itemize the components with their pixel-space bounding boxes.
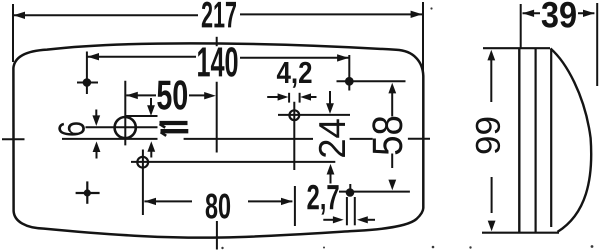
hole bottom-right dot bbox=[346, 188, 355, 197]
mounting hole top-left dot bbox=[83, 78, 92, 87]
dim 6 bottom arrow stem bbox=[96, 151, 98, 159]
dim 2,7 tick left bbox=[346, 197, 348, 225]
small circle left vertical line (80 extension) bbox=[142, 150, 144, 216]
dim 217 line right bbox=[240, 13, 422, 15]
dim 217 arrow left bbox=[13, 12, 25, 19]
mounting hole top-right dot bbox=[345, 77, 354, 86]
dim 99 top arrow bbox=[487, 50, 495, 61]
dim 140 arrow right bbox=[337, 54, 349, 61]
dim 140 line left bbox=[87, 56, 196, 58]
dim 11 top arrow bbox=[147, 105, 155, 116]
mounting hole bottom-left cross dot bbox=[84, 189, 91, 196]
side view lens curve bbox=[551, 49, 592, 232]
dim 2,7 arrow left bbox=[333, 216, 344, 223]
dim 39 label bbox=[542, 2, 576, 28]
dim 39 arrow right bbox=[583, 10, 595, 17]
dim 2,7 tick right bbox=[354, 197, 356, 225]
dim 99 label (rotated) bbox=[476, 118, 500, 154]
horizontal centerline segment b bbox=[184, 138, 313, 140]
dim 50 line right bbox=[189, 94, 205, 96]
dim 24 label (rotated) bbox=[319, 119, 345, 157]
front view body outline bbox=[13, 43, 423, 237]
dim 50 arrow left bbox=[126, 92, 138, 99]
dim 6 bottom arrow bbox=[93, 141, 101, 152]
mounting hole bottom-left cross vertical bbox=[86, 181, 88, 203]
mounting hole top-right cross vertical bbox=[348, 55, 350, 91]
horizontal centerline right tick bbox=[408, 138, 430, 140]
dim 217 arrow right bbox=[411, 11, 423, 18]
dim 24 top arrow stem bbox=[329, 91, 331, 104]
side view left edge bbox=[518, 48, 520, 233]
side view top edge bbox=[483, 47, 550, 49]
dim 80 line left bbox=[144, 200, 192, 202]
dim 80 line right bbox=[248, 200, 292, 202]
dim 58 bottom arrow bbox=[388, 180, 396, 191]
dim 50 arrow right bbox=[204, 92, 216, 99]
side view bottom edge bbox=[482, 232, 559, 234]
vertical centerline middle segment bbox=[216, 82, 218, 153]
dim 39 extension left bbox=[520, 4, 522, 48]
line y191 bottom right bbox=[339, 191, 410, 193]
mounting hole top-left cross vertical bbox=[86, 52, 88, 95]
dim 39 line left bbox=[523, 12, 541, 14]
dim 80 extension right bbox=[294, 186, 296, 226]
dim 39 arrow left bbox=[523, 10, 535, 17]
small circle left (cable hole) bbox=[137, 157, 148, 168]
dim 11 bottom arrow bbox=[147, 141, 155, 152]
screw hole big circle bbox=[115, 117, 136, 138]
horizontal centerline left tick bbox=[2, 138, 25, 140]
dim 4,2 tick left bbox=[288, 93, 290, 103]
dim 2,7 arrow right bbox=[357, 216, 368, 223]
dim 80 arrow right bbox=[281, 198, 293, 205]
dim 6 label (rotated) bbox=[58, 122, 85, 135]
dim 217 extension right bbox=[422, 2, 424, 72]
vertical centerline top tick bbox=[216, 37, 218, 46]
dim 11 bottom arrow stem bbox=[150, 151, 152, 158]
side view seam line 1 bbox=[534, 48, 536, 232]
dim 6 top arrow stem bbox=[95, 110, 97, 117]
dim 99 line upper bbox=[490, 60, 492, 103]
dim 11 label (rotated) bbox=[160, 123, 189, 136]
dim 217 line left bbox=[13, 14, 198, 16]
dim 50 label bbox=[157, 80, 187, 109]
dim 2,7 line left bbox=[323, 219, 333, 221]
dim 6 top arrow bbox=[92, 115, 100, 126]
dim 58 label (rotated) bbox=[372, 117, 402, 155]
dim 4,2 label bbox=[277, 62, 312, 88]
dim 217 label bbox=[202, 2, 236, 28]
dim 99 bottom arrow bbox=[488, 221, 496, 232]
dim 39 line right bbox=[578, 12, 594, 14]
dim 11 top tangent line bbox=[126, 115, 158, 117]
dim 50 line left bbox=[126, 94, 156, 96]
dim 4,2 line right bbox=[311, 96, 317, 98]
mounting hole top-right line to 58 dim bbox=[337, 80, 406, 82]
dim 58 line lower bbox=[391, 154, 393, 169]
horizontal centerline segment c bbox=[350, 138, 373, 140]
dim 24 bottom arrow stem bbox=[330, 174, 332, 184]
mounting hole top-left cross horizontal bbox=[77, 82, 98, 84]
hole 4.2 circle bbox=[289, 110, 299, 120]
hole bottom-right stem bbox=[349, 184, 351, 189]
dim 39 extension right bbox=[596, 3, 598, 86]
hole 4.2 horizontal line to 24 dim bbox=[278, 114, 350, 116]
dim 24 bottom arrow bbox=[327, 164, 335, 175]
screw hole vertical line (50 extension) bbox=[124, 81, 126, 146]
hole 4.2 vertical line bbox=[293, 102, 295, 170]
dim 24 top arrow bbox=[326, 103, 334, 114]
dim 80 label bbox=[206, 194, 230, 219]
dim 4,2 arrow left bbox=[278, 93, 289, 100]
mounting hole bottom-left cross horizontal bbox=[76, 192, 100, 194]
dim 11 top arrow stem bbox=[150, 98, 152, 107]
dim 58 line upper bbox=[391, 93, 393, 117]
vertical centerline bottom tick bbox=[216, 221, 218, 250]
dim 99 line lower bbox=[491, 177, 493, 213]
horizontal centerline segment a bbox=[62, 138, 158, 140]
dim 4,2 arrow right bbox=[300, 93, 311, 100]
screw hole horizontal line bbox=[86, 126, 158, 128]
dim 2,7 label bbox=[307, 185, 338, 215]
dim 140 label bbox=[198, 47, 237, 77]
film specks bbox=[221, 7, 593, 249]
dim 4,2 tick right bbox=[299, 93, 301, 103]
horizontal line y162 through small circles bbox=[131, 161, 335, 163]
dim 140 line right bbox=[240, 57, 349, 59]
dim 217 extension left bbox=[12, 4, 14, 62]
dim 58 top arrow bbox=[388, 83, 396, 94]
dim 2,7 line right bbox=[368, 219, 375, 221]
dim 140 arrow left bbox=[87, 53, 99, 60]
dim 80 arrow left bbox=[144, 198, 156, 205]
dim 4,2 line left bbox=[267, 96, 278, 98]
side view seam line 2 bbox=[550, 49, 552, 228]
